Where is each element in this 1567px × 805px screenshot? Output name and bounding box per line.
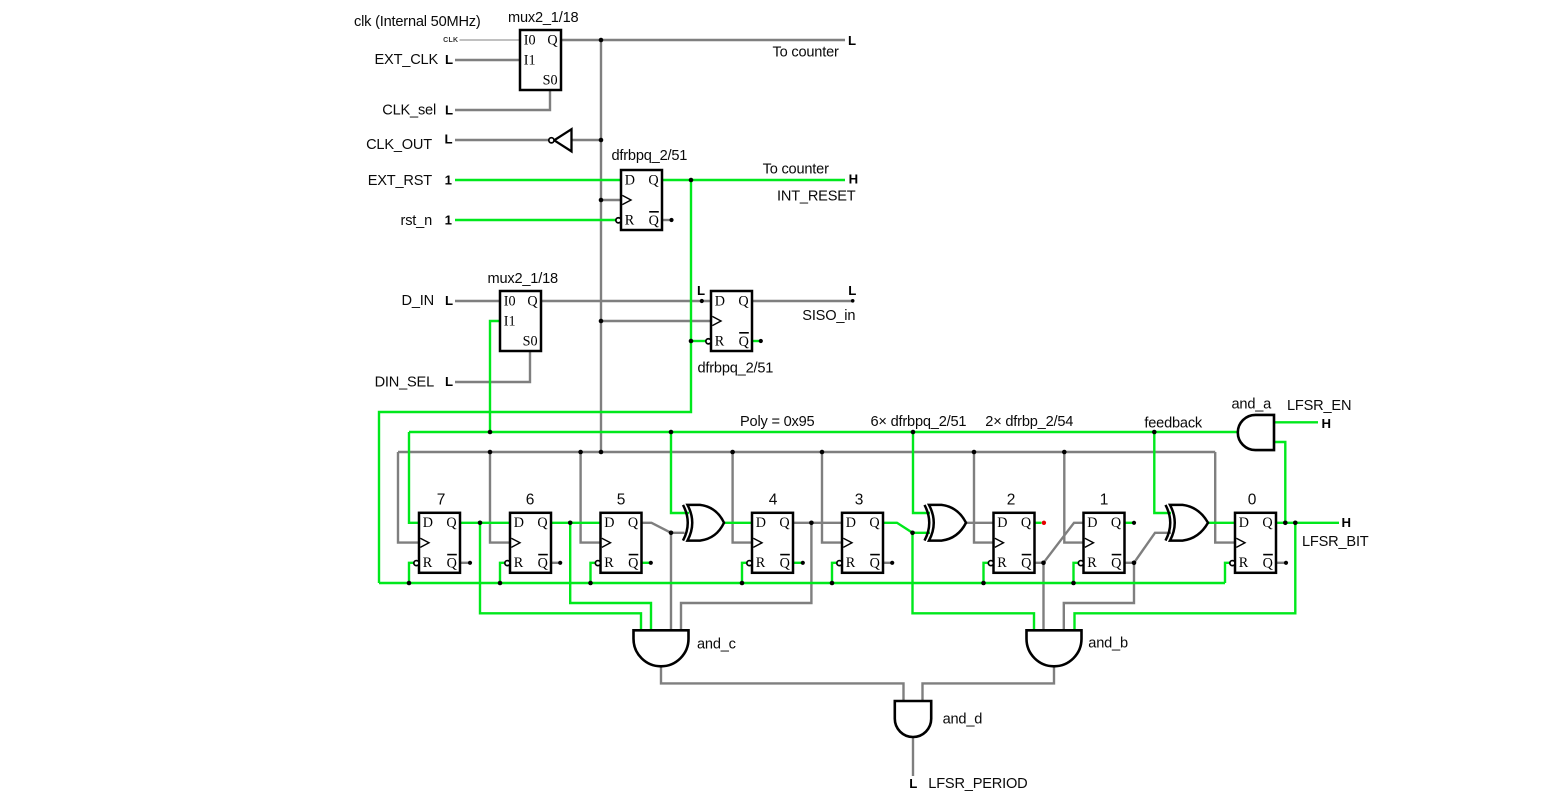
junction trunk at clock bus — [599, 450, 604, 455]
junction trunk at U4 clock — [599, 319, 604, 324]
flip-flop FF5 — [601, 513, 642, 573]
svg-text:L: L — [445, 52, 453, 67]
flip-flop U4 dfrbpq_2/51 SISO — [711, 291, 752, 351]
junction reset rail FF3 — [830, 581, 835, 586]
junction feedback at XOR1 tap — [669, 430, 674, 435]
wire XOR2 output to FF2 D — [966, 522, 994, 524]
svg-text:S0: S0 — [543, 72, 558, 88]
wire FF1 Qbar stub — [1125, 562, 1135, 564]
svg-text:Q: Q — [537, 515, 547, 531]
svg-text:Q: Q — [628, 556, 638, 572]
svg-text:Q: Q — [1021, 556, 1031, 572]
wire feedback tap XOR3 — [1154, 432, 1171, 513]
wire FF6 Q to FF5 D — [551, 522, 601, 524]
junction clock bus FF2 — [972, 450, 977, 455]
wire clock drop FF6 — [490, 452, 510, 543]
wire Q0 riser to and_a — [1274, 442, 1285, 523]
junction reset rail FF5 — [588, 581, 593, 586]
open end FF7 Qbar — [468, 561, 472, 565]
open end SISO_in — [851, 299, 855, 303]
wire clock drop FF7 — [398, 452, 419, 543]
open end U4 Qbar — [759, 339, 763, 343]
open end FF5 Qbar — [649, 561, 653, 565]
wire U4 Qbar stub — [752, 340, 761, 342]
svg-text:D: D — [625, 172, 635, 188]
junction Q0 at and_b drop — [1293, 521, 1298, 526]
wire DIN_SEL to mux S0 — [455, 351, 530, 382]
svg-text:Q: Q — [1263, 556, 1273, 572]
svg-text:Q: Q — [527, 293, 537, 309]
AND gate and_a — [1238, 415, 1274, 450]
svg-text:Q: Q — [447, 556, 457, 572]
svg-text:0: 0 — [1248, 492, 1257, 509]
svg-text:I1: I1 — [504, 313, 516, 329]
wire clock drop FF1 — [1064, 452, 1083, 543]
wire FF6 Qbar stub — [551, 562, 560, 564]
junction feedback at XOR2 tap — [911, 430, 916, 435]
wire FF3 Qbar stub — [883, 562, 892, 564]
wire reset tap FF1 — [1074, 563, 1080, 583]
flip-flop U3 dfrbpq_2/51 reset sync — [621, 170, 662, 230]
svg-text:D: D — [846, 515, 856, 531]
wire reset tap FF7 — [409, 563, 415, 583]
svg-text:R: R — [423, 555, 433, 571]
svg-text:Q: Q — [738, 293, 748, 309]
junction reset rail FF7 — [407, 581, 412, 586]
junction Qbar2 node — [1041, 561, 1046, 566]
svg-text:L: L — [697, 283, 705, 298]
svg-text:Q: Q — [869, 515, 879, 531]
svg-text:2× dfrbp_2/54: 2× dfrbp_2/54 — [985, 414, 1073, 430]
wire Qbar2 diagonal to FF1 D — [1044, 523, 1084, 563]
wire EXT_CLK to mux I1 — [455, 59, 520, 61]
svg-text:To counter: To counter — [763, 162, 829, 178]
wire Qbar1 diagonal to XOR3 input — [1134, 533, 1171, 563]
wire FF7 Q to FF6 D — [460, 522, 510, 524]
inverter CLK_OUT driver — [554, 129, 571, 151]
junction Q5 at XOR1 input — [669, 531, 674, 536]
svg-text:and_c: and_c — [697, 637, 736, 653]
svg-text:H: H — [1342, 515, 1352, 530]
wire INT_RESET to U4 R — [691, 340, 707, 342]
junction Q6 tap — [568, 521, 573, 526]
wire inverter input from trunk — [572, 139, 602, 141]
wire Q6 tap to and_c — [570, 523, 651, 631]
junction reset rail FF4 — [740, 581, 745, 586]
wire feedback to mux I1 — [490, 321, 500, 432]
wire reset tap FF4 — [742, 563, 748, 583]
svg-text:EXT_RST: EXT_RST — [368, 173, 433, 189]
svg-text:Q: Q — [1111, 515, 1121, 531]
svg-text:D: D — [1087, 515, 1097, 531]
svg-text:D: D — [514, 515, 524, 531]
wire Qbar2 drop to and_b — [1042, 563, 1044, 631]
svg-text:6: 6 — [526, 492, 535, 509]
wire U3 Qbar stub — [662, 219, 671, 221]
svg-text:1: 1 — [1100, 492, 1109, 509]
wire CLK_sel to mux S0 — [455, 90, 550, 110]
svg-text:S0: S0 — [523, 333, 538, 349]
svg-text:CLK_OUT: CLK_OUT — [366, 137, 432, 153]
junction reset rail FF2 — [981, 581, 986, 586]
svg-text:L: L — [445, 374, 453, 389]
open end FF6 Qbar — [558, 561, 562, 565]
wire trunk to U3 clock — [601, 199, 621, 201]
svg-text:R: R — [514, 555, 524, 571]
wire FF5 Q to XOR1 input — [642, 523, 685, 533]
svg-text:H: H — [1322, 416, 1332, 431]
open end FF1 Q — [1132, 521, 1136, 525]
junction reset rail FF6 — [498, 581, 503, 586]
svg-text:Q: Q — [1111, 556, 1121, 572]
svg-text:D: D — [423, 515, 433, 531]
svg-text:D_IN: D_IN — [402, 293, 434, 309]
svg-text:L: L — [444, 132, 452, 147]
wire XOR3 output to FF0 D — [1208, 522, 1235, 524]
wire trunk to U4 clock — [601, 320, 711, 322]
open end FF0 Qbar — [1284, 561, 1288, 565]
svg-text:Q: Q — [446, 515, 456, 531]
svg-text:Q: Q — [870, 556, 880, 572]
svg-text:R: R — [846, 555, 856, 571]
XOR gate XOR1 — [688, 505, 725, 541]
wire FF0 Q LFSR_BIT — [1276, 522, 1339, 524]
wire INT_RESET vertical — [379, 180, 691, 583]
wire FF5 Qbar stub — [642, 562, 651, 564]
svg-text:LFSR_PERIOD: LFSR_PERIOD — [928, 776, 1027, 792]
svg-text:I0: I0 — [504, 293, 516, 309]
wire Q0 drop to and_b — [1075, 523, 1296, 631]
wire feedback rail Poly — [409, 431, 1238, 433]
open end FF3 Qbar — [890, 561, 894, 565]
svg-text:L: L — [445, 102, 453, 117]
wire reset tap FF5 — [591, 563, 597, 583]
junction Q0 at and_a riser — [1283, 521, 1288, 526]
svg-text:Q: Q — [547, 32, 557, 48]
open end FF4 Qbar — [801, 561, 805, 565]
wire reset tap FF3 — [832, 563, 838, 583]
svg-text:I0: I0 — [524, 32, 536, 48]
junction trunk at inverter — [599, 138, 604, 143]
svg-text:6× dfrbpq_2/51: 6× dfrbpq_2/51 — [871, 414, 967, 430]
wire rst_n to U3 R — [455, 219, 617, 221]
flip-flop FF6 — [510, 513, 551, 573]
wire clock bus — [398, 451, 1215, 453]
wire Q5 drop to and_c — [670, 533, 672, 631]
svg-text:Q: Q — [538, 556, 548, 572]
junction feedback at mux tap — [488, 430, 493, 435]
svg-text:CLK_sel: CLK_sel — [382, 103, 436, 119]
wire and_d output LFSR_PERIOD — [912, 737, 914, 776]
svg-text:mux2_1/18: mux2_1/18 — [508, 10, 578, 26]
wire D_IN to mux I0 — [455, 300, 500, 302]
wire Qbar1 drop to and_b — [1064, 563, 1134, 631]
wire feedback tap XOR1 — [671, 432, 689, 513]
wire CLK_OUT from inverter — [455, 139, 549, 141]
wire XOR1 output to FF4 D — [724, 522, 752, 524]
junction feedback at XOR3 tap — [1152, 430, 1157, 435]
wire FF4 Q to FF3 D — [793, 522, 842, 524]
AND gate and_c — [634, 630, 689, 666]
svg-text:1: 1 — [445, 172, 452, 187]
flip-flop FF3 — [842, 513, 883, 573]
junction trunk at U3 clock — [599, 198, 604, 203]
svg-text:EXT_CLK: EXT_CLK — [375, 52, 439, 68]
wire FF1 Q stub — [1125, 522, 1134, 524]
flip-flop FF4 — [752, 513, 793, 573]
svg-text:Q: Q — [779, 515, 789, 531]
svg-text:clk (Internal 50MHz): clk (Internal 50MHz) — [354, 14, 481, 30]
junction clock bus FF6 — [488, 450, 493, 455]
svg-text:feedback: feedback — [1144, 416, 1203, 432]
svg-text:2: 2 — [1007, 492, 1016, 509]
junction Q3 at XOR2 input — [910, 531, 915, 536]
svg-text:dfrbpq_2/51: dfrbpq_2/51 — [612, 148, 688, 164]
XOR gate XOR2 — [929, 505, 966, 541]
wire FF7 Qbar stub — [460, 562, 470, 564]
junction INT_RESET at U3 Q — [689, 178, 694, 183]
wire FF0 Qbar stub — [1276, 562, 1286, 564]
wire and_b output to and_d — [923, 666, 1055, 701]
wire and_c output to and_d — [661, 666, 904, 701]
flip-flop FF1 — [1084, 513, 1125, 573]
wire LFSR_EN to and_a — [1274, 421, 1318, 423]
svg-text:Q: Q — [739, 334, 749, 350]
wire clock drop FF5 — [581, 452, 601, 543]
svg-text:R: R — [1087, 555, 1097, 571]
svg-text:D: D — [756, 515, 766, 531]
wire U3 Q INT_RESET to counter — [662, 179, 845, 181]
wire FF2 Q stub — [1035, 522, 1042, 524]
wire mux Q to counter — [561, 39, 845, 41]
svg-text:and_b: and_b — [1088, 636, 1128, 652]
svg-text:R: R — [1239, 555, 1249, 571]
svg-text:Poly = 0x95: Poly = 0x95 — [740, 414, 815, 430]
svg-text:1: 1 — [445, 212, 452, 227]
svg-text:mux2_1/18: mux2_1/18 — [488, 271, 558, 287]
svg-text:Q: Q — [780, 556, 790, 572]
wire Q4 tap to and_c — [681, 523, 811, 631]
wire reset rail — [379, 582, 1225, 584]
AND gate and_d — [895, 701, 931, 737]
wire mux Q to U4 D — [541, 300, 711, 302]
junction clock bus FF5 — [578, 450, 583, 455]
wire clock drop FF0 — [1215, 452, 1235, 543]
wire clock trunk — [600, 40, 602, 452]
wire reset tap FF0 — [1225, 563, 1231, 583]
multiplexer mux2_1/18 clock select — [520, 30, 561, 90]
wire feedback to FF7 D — [409, 432, 419, 523]
svg-text:5: 5 — [617, 492, 626, 509]
svg-text:R: R — [625, 212, 635, 228]
svg-text:I1: I1 — [524, 52, 536, 68]
svg-text:D: D — [997, 515, 1007, 531]
probe point U4 D — [700, 299, 704, 303]
svg-text:SISO_in: SISO_in — [802, 308, 855, 324]
junction INT_RESET at U4 R — [689, 339, 694, 344]
svg-text:R: R — [997, 555, 1007, 571]
junction reset rail FF1 — [1071, 581, 1076, 586]
svg-text:dfrbpq_2/51: dfrbpq_2/51 — [698, 360, 774, 376]
wire feedback tap XOR2 — [913, 432, 930, 513]
svg-text:H: H — [849, 171, 859, 186]
wire FF3 Q to XOR2 input — [883, 523, 930, 533]
junction trunk at mux Q — [599, 38, 604, 43]
open end U3 Qbar — [669, 218, 673, 222]
svg-text:INT_RESET: INT_RESET — [777, 189, 856, 205]
XOR gate XOR3 — [1170, 505, 1208, 541]
flip-flop FF7 — [419, 513, 460, 573]
wire FF2 Qbar stub — [1035, 562, 1044, 564]
wire FF4 Qbar stub — [793, 562, 803, 564]
wire Q7 tap to and_c — [480, 523, 641, 631]
wire reset tap FF6 — [500, 563, 506, 583]
svg-text:L: L — [848, 283, 856, 298]
junction Q4 tap — [809, 521, 814, 526]
svg-text:Q: Q — [1262, 515, 1272, 531]
svg-text:Q: Q — [1021, 515, 1031, 531]
wire CLK stub to mux I0 — [460, 39, 521, 41]
svg-text:DIN_SEL: DIN_SEL — [375, 374, 435, 390]
wire EXT_RST to U3 D — [455, 179, 621, 181]
junction clock bus FF1 — [1062, 450, 1067, 455]
flip-flop FF2 — [994, 513, 1035, 573]
svg-text:D: D — [1239, 515, 1249, 531]
svg-text:CLK: CLK — [443, 37, 458, 44]
svg-text:D: D — [715, 293, 725, 309]
svg-text:To counter: To counter — [773, 44, 839, 60]
svg-text:4: 4 — [769, 492, 778, 509]
svg-text:L: L — [909, 776, 917, 791]
svg-text:rst_n: rst_n — [401, 213, 433, 229]
svg-text:D: D — [604, 515, 614, 531]
wire clock drop FF2 — [974, 452, 994, 543]
junction clock bus FF4 — [730, 450, 735, 455]
multiplexer mux2_1/18 data select — [500, 291, 541, 351]
wire clock drop FF3 — [822, 452, 842, 543]
wire reset tap FF2 — [984, 563, 990, 583]
junction clock bus FF3 — [820, 450, 825, 455]
svg-text:LFSR_EN: LFSR_EN — [1287, 398, 1351, 414]
svg-text:7: 7 — [437, 492, 446, 509]
svg-text:R: R — [604, 555, 614, 571]
flip-flop FF0 — [1235, 513, 1276, 573]
svg-text:and_a: and_a — [1232, 396, 1273, 412]
svg-text:Q: Q — [649, 213, 659, 229]
open end FF2 Q warning — [1042, 521, 1046, 525]
svg-text:R: R — [756, 555, 766, 571]
svg-text:R: R — [715, 333, 725, 349]
wire Q3 drop to and_b — [913, 533, 1035, 631]
svg-text:Q: Q — [628, 515, 638, 531]
junction Q7 tap — [478, 521, 483, 526]
junction Qbar1 node — [1132, 561, 1137, 566]
svg-text:L: L — [848, 33, 856, 48]
AND gate and_b — [1027, 630, 1082, 666]
svg-text:Q: Q — [648, 172, 658, 188]
svg-text:LFSR_BIT: LFSR_BIT — [1302, 534, 1369, 550]
svg-text:3: 3 — [855, 492, 864, 509]
wire U4 Q to SISO_in — [752, 300, 852, 302]
svg-text:and_d: and_d — [943, 712, 983, 728]
svg-text:L: L — [445, 293, 453, 308]
wire clock drop FF4 — [733, 452, 752, 543]
